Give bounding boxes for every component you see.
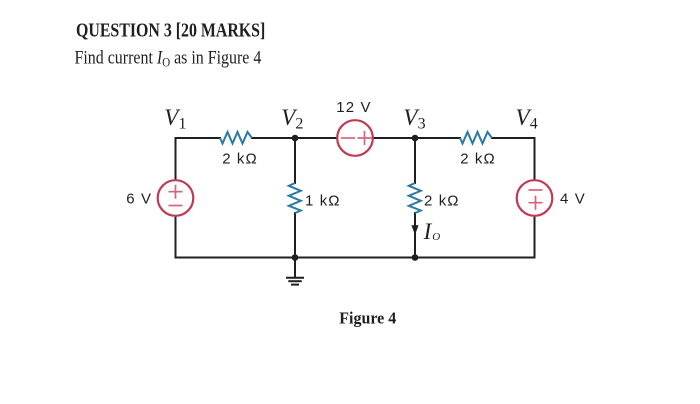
- svg-text:1 kΩ: 1 kΩ: [305, 192, 341, 209]
- svg-text:O: O: [432, 231, 440, 243]
- svg-text:2 kΩ: 2 kΩ: [222, 150, 258, 167]
- svg-text:2 kΩ: 2 kΩ: [424, 192, 460, 209]
- svg-text:4: 4: [530, 116, 538, 133]
- svg-text:12 V: 12 V: [336, 99, 371, 116]
- svg-text:4 V: 4 V: [560, 191, 586, 208]
- svg-text:I: I: [423, 219, 433, 244]
- svg-text:Figure 4: Figure 4: [339, 308, 396, 328]
- svg-text:3: 3: [418, 116, 426, 133]
- svg-text:QUESTION 3 [20 MARKS]: QUESTION 3 [20 MARKS]: [76, 19, 265, 41]
- svg-text:1: 1: [179, 116, 187, 133]
- svg-text:2: 2: [295, 116, 303, 133]
- svg-text:2 kΩ: 2 kΩ: [460, 150, 496, 167]
- svg-text:6 V: 6 V: [126, 191, 152, 208]
